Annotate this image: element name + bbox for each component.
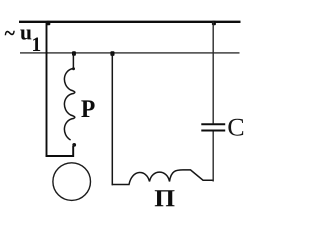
- wire: horizontal to motor / coil P bottom: [46, 146, 74, 156]
- wire: right vertical from capacitor down to coil П: [212, 132, 214, 182]
- capacitor C top plate: [201, 123, 225, 125]
- wire: right vertical from top rail to capacitor: [212, 22, 214, 124]
- motor (circle): [53, 163, 91, 201]
- node: junction dot on top rail (right): [212, 21, 216, 25]
- label C: [228, 119, 243, 136]
- wire: second supply rail: [20, 52, 240, 54]
- node: coil P top terminal dot: [72, 67, 75, 70]
- label П: [155, 190, 175, 206]
- node: coil P bottom terminal dot: [72, 143, 76, 147]
- label P: [81, 100, 94, 117]
- label ~u1 source voltage: [5, 31, 15, 35]
- wire: vertical drop of П branch: [111, 53, 113, 185]
- capacitor C bottom plate: [201, 130, 225, 132]
- node: junction dot on top rail (left): [46, 21, 50, 26]
- node: junction dot on second rail (coil П branch): [110, 51, 114, 56]
- inductor П (winding) with right elbow: [112, 170, 214, 185]
- inductor P (winding): [64, 53, 74, 140]
- wire: top supply rail: [19, 21, 241, 23]
- node: junction dot on second rail (coil P branch): [72, 51, 76, 56]
- wire: left vertical drop to motor branch: [46, 21, 48, 157]
